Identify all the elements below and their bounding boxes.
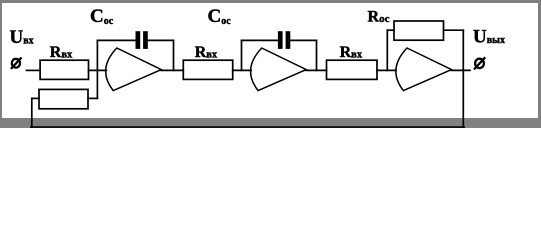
wire left vertical to rail bbox=[31, 98, 33, 127]
wire U1 out to R2 bbox=[161, 69, 183, 71]
wire feedback1 down bbox=[173, 40, 175, 70]
frame left bbox=[0, 0, 2, 128]
resistor R2 (Rвх) bbox=[183, 60, 232, 79]
op-amp U2 bbox=[251, 48, 307, 91]
capacitor C1 (Cос) plates bbox=[136, 31, 141, 49]
wire feedback1 top right bbox=[148, 39, 174, 41]
white canvas bbox=[0, 0, 541, 128]
resistor R4 lower (unlabeled) bbox=[39, 89, 88, 108]
resistor R1 (Rвх) bbox=[40, 60, 88, 79]
wire feedback1 top left bbox=[97, 39, 135, 41]
frame right bbox=[538, 0, 541, 128]
wire U2 out to R3 bbox=[306, 69, 326, 71]
node junction j1 vertical bbox=[96, 40, 98, 98]
wire R4 right stub bbox=[88, 97, 97, 99]
wire input bbox=[27, 69, 41, 71]
wire R3 to op-amp U3 bbox=[377, 69, 396, 71]
op-amp U1 bbox=[106, 48, 162, 91]
terminal Ø output bbox=[474, 57, 485, 69]
frame top bbox=[0, 0, 541, 3]
frame bottom bbox=[0, 118, 541, 128]
wire Rос left stub bbox=[387, 29, 394, 31]
wire output vertical bbox=[462, 30, 464, 127]
resistor R3 (Rвх) bbox=[327, 60, 378, 79]
terminal Ø input bbox=[11, 58, 22, 69]
resistor Roc (Rос) bbox=[394, 21, 444, 40]
op-amp U3 bbox=[396, 48, 452, 91]
wire R4 left stub bbox=[32, 97, 39, 99]
wire Rос right stub bbox=[444, 29, 464, 31]
capacitor C2 (Cос) plates bbox=[278, 31, 283, 49]
wire feedback2 top right bbox=[290, 39, 316, 41]
node junction j3 vertical bbox=[386, 30, 388, 70]
node junction j2 vertical bbox=[241, 40, 243, 70]
wire U3 out bbox=[452, 69, 471, 71]
wire R2 to op-amp U2 bbox=[233, 69, 252, 71]
wire R1 to op-amp U1 bbox=[89, 69, 107, 71]
wire feedback2 top left bbox=[242, 39, 278, 41]
wire bottom rail bbox=[31, 126, 464, 128]
wire feedback2 down bbox=[316, 40, 318, 70]
